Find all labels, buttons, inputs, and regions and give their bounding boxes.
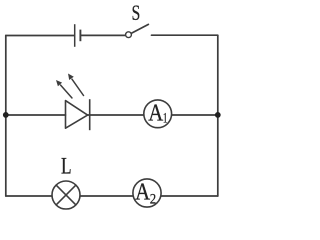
LED light arrow 2 xyxy=(68,74,84,96)
wire top: left rail to battery xyxy=(6,35,74,37)
svg-text:A: A xyxy=(148,100,164,126)
wire middle: ammeter A1 to right rail xyxy=(172,114,218,116)
wire bottom: lamp to ammeter A2 xyxy=(80,195,133,197)
junction node left xyxy=(3,112,9,118)
wire top: switch to right rail xyxy=(152,34,218,36)
battery xyxy=(75,24,81,47)
wire top: battery to switch xyxy=(81,34,125,36)
lamp L xyxy=(52,181,80,209)
wire bottom: left rail to lamp xyxy=(6,195,52,197)
wire middle: left rail to LED xyxy=(6,114,66,116)
junction node right xyxy=(215,112,221,118)
svg-text:L: L xyxy=(61,154,72,179)
switch S xyxy=(126,24,149,37)
wire right rail xyxy=(217,36,219,197)
LED D1 xyxy=(66,99,90,130)
svg-text:1: 1 xyxy=(163,111,168,127)
svg-text:S: S xyxy=(132,0,141,25)
wire left rail xyxy=(5,36,7,197)
LED light arrow 1 xyxy=(56,80,72,98)
ammeter A1 xyxy=(144,100,172,128)
svg-text:A: A xyxy=(135,180,151,206)
ammeter A2 xyxy=(133,179,161,208)
svg-text:2: 2 xyxy=(150,192,156,208)
wire bottom: ammeter A2 to right rail xyxy=(161,195,218,197)
wire middle: LED to ammeter A1 xyxy=(88,114,144,116)
